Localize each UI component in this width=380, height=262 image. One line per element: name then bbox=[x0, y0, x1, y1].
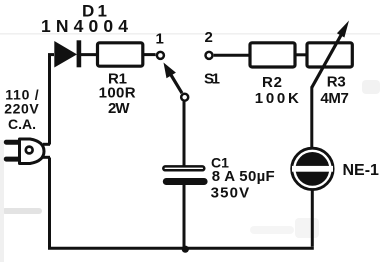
svg-text:R3: R3 bbox=[327, 73, 346, 90]
switch arm bbox=[170, 73, 183, 94]
wire bbox=[80, 53, 98, 56]
node pole terminal bbox=[181, 94, 188, 101]
node 1 terminal bbox=[157, 52, 164, 59]
node 2 terminal bbox=[206, 52, 213, 59]
svg-text:1: 1 bbox=[156, 31, 164, 48]
wire bbox=[48, 56, 51, 145]
diode D1 bbox=[54, 40, 81, 67]
wire bbox=[48, 53, 54, 56]
wire bbox=[43, 156, 50, 159]
svg-text:2: 2 bbox=[205, 29, 213, 46]
wire bbox=[48, 158, 51, 249]
svg-text:R2: R2 bbox=[262, 74, 282, 91]
wire bbox=[142, 53, 156, 56]
svg-text:4M7: 4M7 bbox=[320, 90, 349, 107]
switch S1 bbox=[157, 52, 213, 101]
resistor R1 bbox=[98, 43, 143, 66]
svg-text:8 A 50µF: 8 A 50µF bbox=[212, 168, 275, 185]
wire bbox=[183, 185, 186, 250]
svg-text:350V: 350V bbox=[211, 184, 250, 201]
resistor R2 bbox=[250, 43, 295, 67]
svg-text:2W: 2W bbox=[108, 100, 130, 117]
wire bbox=[214, 54, 251, 57]
capacitor C1 bbox=[163, 166, 208, 185]
wire bbox=[43, 143, 50, 146]
wire bbox=[311, 189, 314, 247]
svg-text:S1: S1 bbox=[204, 70, 220, 87]
wire bbox=[310, 87, 313, 150]
svg-text:NE-1: NE-1 bbox=[343, 162, 380, 179]
svg-text:220V: 220V bbox=[4, 100, 39, 116]
wire bbox=[295, 53, 309, 56]
neon lamp NE-1 bbox=[292, 148, 333, 189]
potentiometer R3 bbox=[307, 21, 352, 88]
wire bbox=[183, 102, 186, 167]
svg-text:C.A.: C.A. bbox=[8, 116, 36, 132]
node junction dot bbox=[182, 246, 189, 253]
wire bbox=[48, 247, 314, 250]
AC plug bbox=[4, 139, 44, 164]
svg-text:100K: 100K bbox=[255, 90, 299, 107]
